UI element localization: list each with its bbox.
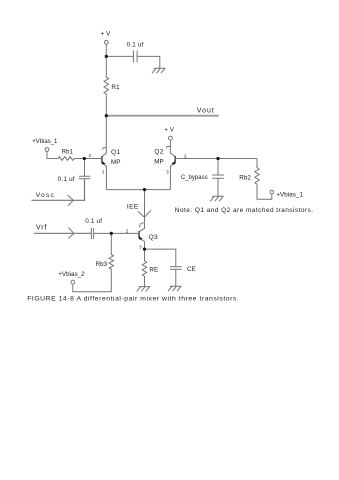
node +V Q2 terminal	[169, 136, 173, 140]
svg-text:+ V: + V	[101, 31, 111, 38]
svg-text:R1: R1	[111, 84, 120, 91]
wire Vbias1 to Rb1	[47, 152, 58, 159]
svg-text:Vout: Vout	[197, 108, 215, 115]
wire emitter rail	[106, 189, 170, 191]
svg-text:Rb1: Rb1	[62, 149, 74, 155]
junction at Rb1/cap	[83, 157, 86, 160]
svg-text:2: 2	[89, 153, 92, 158]
wire Q3 emitter down	[144, 242, 146, 262]
svg-text:MP: MP	[111, 159, 120, 166]
svg-text:Q2: Q2	[154, 148, 163, 155]
wire Vrf line	[34, 232, 91, 234]
svg-text:FIGURE 14-8 A differential-pai: FIGURE 14-8 A differential-pair mixer wi…	[27, 295, 239, 302]
svg-text:Rb2: Rb2	[239, 174, 251, 181]
wire RE to ground	[144, 276, 146, 286]
wire IEE down	[144, 190, 146, 229]
svg-text:Rb3: Rb3	[96, 261, 108, 268]
resistor R1	[104, 77, 109, 94]
transistor Q3	[139, 223, 145, 250]
svg-text:0.1 uf: 0.1 uf	[127, 42, 144, 49]
svg-text:C_bypass: C_bypass	[181, 175, 208, 181]
svg-text:3: 3	[166, 170, 169, 175]
wire Q1 emitter down	[105, 166, 107, 189]
resistor Rb1	[58, 157, 74, 161]
wire junction down to bias cap	[84, 159, 86, 177]
transistor Q1	[102, 148, 107, 175]
junction at Vrf/Rb3	[110, 232, 113, 235]
junction at +V/cap	[105, 55, 108, 58]
ground (below CE)	[168, 286, 181, 291]
capacitor C_bypass plates	[213, 175, 224, 178]
node +Vbias_2 terminal	[71, 280, 75, 284]
wire cap to Vosc line	[32, 179, 85, 201]
junction at Vout	[105, 114, 108, 117]
resistor Rb3	[109, 255, 113, 270]
wire Rb1 to junction	[74, 158, 84, 160]
svg-text:+Vbias_2: +Vbias_2	[58, 271, 85, 278]
svg-text:Q3: Q3	[149, 234, 158, 241]
svg-text:3: 3	[102, 170, 105, 175]
wire Vout	[106, 115, 219, 117]
wire Q2 base to right	[175, 158, 257, 160]
wire C_bypass to ground	[217, 178, 219, 196]
svg-text:MP: MP	[154, 159, 163, 166]
wire +V to Q2 collector	[169, 140, 171, 153]
wire cap to junction	[94, 232, 112, 234]
svg-text:RE: RE	[149, 266, 158, 273]
capacitor CE plates	[170, 267, 181, 270]
resistor Rb2	[255, 168, 259, 184]
arrow IEE current	[138, 211, 150, 218]
capacitor 0.1uf top plates	[133, 51, 137, 62]
wire Rb3 to Vbias2	[73, 269, 112, 292]
junction at emitter rail	[143, 188, 146, 191]
node +Vbias_1 left terminal	[45, 148, 49, 152]
wire +V to R1 top	[105, 44, 107, 77]
node +Vbias_1 right terminal	[270, 190, 274, 194]
capacitor 0.1uf (rf coupling) plates	[91, 228, 93, 238]
junction at C_bypass	[216, 157, 219, 160]
svg-text:+Vbias_1: +Vbias_1	[32, 139, 58, 145]
svg-text:3: 3	[139, 244, 142, 249]
svg-text:+ V: + V	[164, 127, 174, 134]
wire cap to ground corner	[137, 56, 160, 68]
wire Q1 base from Rb1 junction	[84, 158, 102, 160]
wire junction to bypass cap	[106, 55, 133, 57]
wire Q2 emitter down	[169, 166, 171, 189]
svg-text:+Vbias_1: +Vbias_1	[276, 191, 303, 198]
wire R1 to Vout junction to Q1 collector	[105, 94, 107, 153]
svg-text:CE: CE	[187, 266, 196, 273]
wire emitter node to CE	[145, 249, 176, 267]
junction at Q3 emitter node	[143, 248, 146, 251]
ground (top right)	[152, 68, 165, 73]
svg-text:Vosc: Vosc	[36, 192, 55, 199]
svg-text:2: 2	[126, 229, 129, 234]
wire C_bypass down	[217, 159, 219, 176]
arrow Vosc	[68, 195, 74, 205]
wire junction down to Rb3	[110, 233, 112, 254]
svg-text:0.1 uf: 0.1 uf	[85, 218, 102, 225]
transistor Q2	[166, 146, 175, 174]
resistor RE	[142, 261, 146, 276]
svg-text:Vrf: Vrf	[36, 225, 47, 232]
ground (below RE)	[137, 287, 150, 292]
junction dots	[83, 55, 220, 251]
wire Rb2 to Vbias1 right	[257, 184, 272, 199]
svg-text:Q1: Q1	[111, 149, 120, 156]
svg-text:2: 2	[184, 153, 187, 158]
wire to Rb2	[256, 159, 258, 168]
svg-text:IEE: IEE	[127, 204, 139, 211]
svg-text:Note: Q1 and Q2 are matched tr: Note: Q1 and Q2 are matched transistors.	[175, 207, 314, 214]
wire Q3 base from Vrf junction	[111, 232, 139, 234]
node +V top terminal	[104, 40, 108, 44]
capacitor 0.1uf (osc coupling) plates	[79, 176, 90, 179]
wire CE to ground	[175, 269, 177, 286]
arrow Vrf	[69, 228, 74, 238]
ground (below C_bypass)	[211, 196, 224, 201]
svg-text:0.1 uf: 0.1 uf	[58, 176, 75, 183]
